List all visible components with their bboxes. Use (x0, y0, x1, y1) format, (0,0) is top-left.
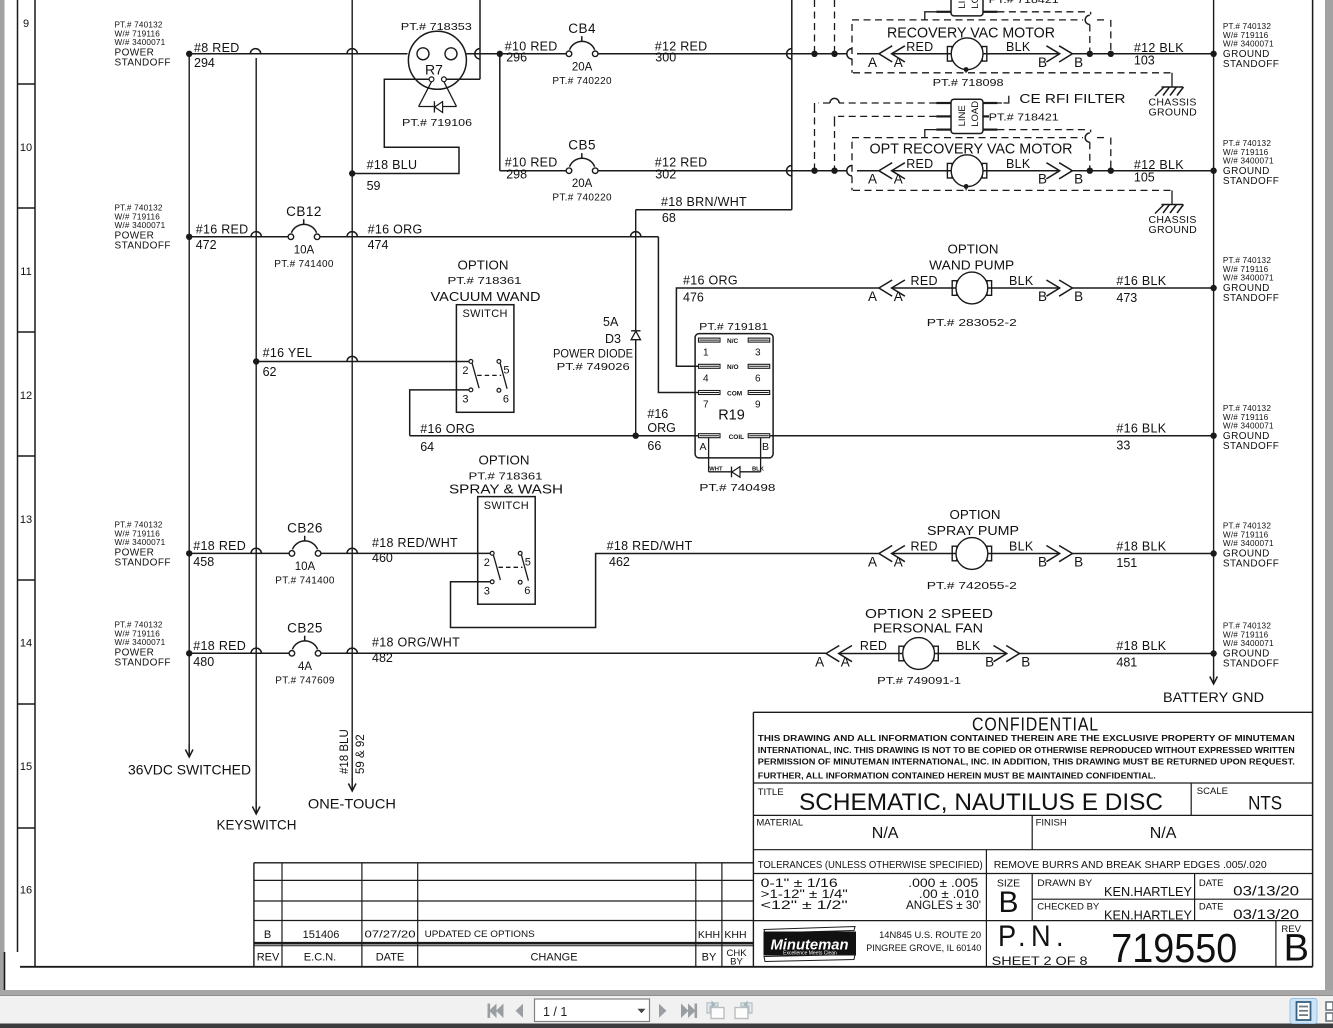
svg-text:BLK: BLK (1006, 157, 1031, 171)
wire #18 BRN/WHT 68 (636, 209, 792, 211)
connector R7 (408, 31, 466, 89)
svg-text:W/# 719116: W/# 719116 (115, 29, 161, 38)
svg-text:59 & 92: 59 & 92 (355, 734, 367, 774)
svg-text:ORG: ORG (647, 421, 675, 435)
wire #16 YEL 62 (256, 361, 469, 363)
svg-text:PT.# 740132: PT.# 740132 (1223, 404, 1271, 413)
wire #18 BLK 151 (1072, 553, 1213, 555)
svg-text:PT.# 740132: PT.# 740132 (1223, 522, 1271, 531)
svg-text:5A: 5A (603, 315, 619, 329)
wire #18 BLK 481 (1020, 653, 1214, 655)
svg-text:PT.# 740132: PT.# 740132 (115, 21, 163, 30)
svg-text:SCHEMATIC, NAUTILUS E DISC: SCHEMATIC, NAUTILUS E DISC (799, 789, 1163, 816)
motor M2 bottom pin (964, 184, 969, 189)
revision table headers (257, 948, 748, 968)
svg-text:SWITCH: SWITCH (484, 500, 529, 512)
svg-text:10: 10 (20, 142, 32, 154)
arrow one-touch (351, 778, 353, 791)
motor opt recovery vac M2 (892, 155, 1060, 187)
svg-text:CHANGE: CHANGE (530, 952, 577, 964)
svg-text:W/# 719116: W/# 719116 (115, 212, 161, 221)
svg-text:PT.# 718098: PT.# 718098 (933, 77, 1004, 89)
svg-text:CB4: CB4 (568, 21, 596, 36)
connector arrows A personal fan (826, 646, 839, 662)
svg-text:W/# 719116: W/# 719116 (115, 529, 161, 538)
wire #12 BLK 103 (1072, 53, 1213, 55)
svg-text:5: 5 (503, 364, 509, 376)
svg-text:FINISH: FINISH (1036, 818, 1067, 829)
svg-text:2: 2 (484, 557, 490, 569)
svg-text:PT.# 718421: PT.# 718421 (989, 0, 1059, 6)
svg-text:STANDOFF: STANDOFF (115, 557, 171, 568)
svg-text:LOAD: LOAD (970, 0, 981, 9)
svg-text:13: 13 (20, 514, 32, 526)
svg-text:KEN.HARTLEY: KEN.HARTLEY (1104, 884, 1192, 899)
svg-text:OPT RECOVERY VAC MOTOR: OPT RECOVERY VAC MOTOR (870, 142, 1073, 158)
svg-text:103: 103 (1134, 54, 1155, 68)
toolbar page number box (535, 999, 650, 1022)
svg-text:W/# 3400071: W/# 3400071 (1223, 639, 1274, 648)
svg-text:PT.# 742055-2: PT.# 742055-2 (927, 580, 1017, 592)
svg-text:NTS: NTS (1248, 794, 1282, 815)
svg-text:16: 16 (20, 885, 32, 897)
svg-text:A: A (868, 555, 877, 570)
svg-text:#16 ORG: #16 ORG (420, 422, 475, 436)
chassis ground 1 (1162, 86, 1184, 88)
svg-text:9: 9 (23, 18, 29, 30)
svg-text:W/# 3400071: W/# 3400071 (1223, 40, 1274, 49)
svg-text:2: 2 (462, 365, 468, 377)
svg-text:#18 RED: #18 RED (193, 639, 246, 653)
dashed wires filter2 left (815, 98, 937, 170)
svg-text:A: A (868, 172, 877, 187)
svg-text:482: 482 (372, 651, 393, 665)
motor personal fan (839, 638, 1007, 670)
svg-text:STANDOFF: STANDOFF (1223, 558, 1279, 569)
arrow 36VDC switched (188, 744, 190, 757)
svg-text:N/C: N/C (727, 338, 739, 345)
svg-text:N/O: N/O (727, 364, 739, 371)
svg-text:W/# 3400071: W/# 3400071 (1223, 422, 1274, 431)
svg-text:B: B (1074, 289, 1083, 304)
connector arrows B row2 (1046, 163, 1059, 179)
svg-text:#16 YEL: #16 YEL (263, 346, 313, 360)
svg-text:LINE: LINE (957, 105, 968, 126)
node junction row2 b (831, 168, 837, 174)
svg-text:#18 BLU: #18 BLU (339, 729, 351, 774)
svg-text:SCALE: SCALE (1197, 786, 1228, 797)
svg-text:DRAWN BY: DRAWN BY (1037, 878, 1093, 889)
svg-text:COIL: COIL (729, 434, 745, 441)
svg-text:RED: RED (911, 540, 938, 554)
relay coil suppression diode (709, 438, 765, 478)
svg-text:#18 RED/WHT: #18 RED/WHT (372, 536, 458, 550)
svg-text:PT.# 740132: PT.# 740132 (1223, 22, 1271, 31)
svg-text:CB26: CB26 (287, 520, 323, 535)
svg-text:1: 1 (703, 348, 709, 359)
svg-text:THIS DRAWING AND ALL INFORMATI: THIS DRAWING AND ALL INFORMATION CONTAIN… (758, 733, 1295, 743)
svg-text:PT.# 749026: PT.# 749026 (557, 361, 630, 373)
svg-text:59: 59 (367, 179, 381, 193)
toolbar first page button (488, 1004, 504, 1019)
svg-text:W/# 3400071: W/# 3400071 (115, 638, 166, 647)
svg-text:POWER DIODE: POWER DIODE (553, 347, 633, 361)
svg-text:DATE: DATE (1199, 878, 1224, 889)
svg-text:14: 14 (20, 638, 32, 650)
svg-text:BLK: BLK (956, 639, 981, 653)
wire one-touch rail (351, 0, 353, 778)
svg-text:REV: REV (257, 952, 280, 964)
motor recovery vac M1 (892, 38, 1060, 70)
svg-text:KEN.HARTLEY: KEN.HARTLEY (1104, 908, 1192, 923)
tolerance rows (761, 878, 981, 912)
wire ground standoff rail right (1213, 0, 1215, 671)
svg-text:A: A (841, 655, 850, 670)
svg-text:KHH: KHH (698, 929, 720, 941)
svg-text:REMOVE BURRS AND BREAK SHARP E: REMOVE BURRS AND BREAK SHARP EDGES .005/… (994, 859, 1267, 871)
svg-text:W/# 719116: W/# 719116 (115, 629, 161, 638)
svg-text:STANDOFF: STANDOFF (1223, 658, 1279, 669)
svg-text:D3: D3 (605, 332, 621, 346)
svg-text:20A: 20A (572, 178, 593, 190)
svg-text:RECOVERY VAC MOTOR: RECOVERY VAC MOTOR (887, 26, 1055, 42)
svg-text:458: 458 (193, 555, 214, 569)
svg-text:302: 302 (655, 168, 676, 182)
svg-text:11: 11 (20, 266, 31, 278)
svg-text:6: 6 (503, 393, 509, 405)
svg-text:WAND PUMP: WAND PUMP (929, 258, 1014, 273)
svg-text:#18 BLK: #18 BLK (1116, 540, 1166, 554)
svg-text:PERMISSION OF MINUTEMAN INTERN: PERMISSION OF MINUTEMAN INTERNATIONAL, I… (758, 757, 1295, 767)
wire #16 ORG 476 to wand pump (676, 288, 879, 366)
svg-text:B: B (1038, 172, 1047, 187)
svg-text:TOLERANCES (UNLESS OTHERWISE S: TOLERANCES (UNLESS OTHERWISE SPECIFIED) (758, 859, 983, 871)
wire 36VDC switched rail (188, 54, 190, 744)
wire R7 pad to #18 BLU loop (352, 79, 459, 173)
svg-text:CONFIDENTIAL: CONFIDENTIAL (972, 714, 1099, 735)
relay R19 (695, 334, 773, 458)
node junction row2 a (811, 168, 817, 174)
svg-text:PT.# 740220: PT.# 740220 (552, 76, 612, 87)
connector arrows A row2 (879, 163, 892, 179)
wire #16 ORG 64/66 (410, 435, 699, 437)
wire #16 RED 472 (189, 236, 288, 238)
circuit breaker CB25 (289, 651, 295, 657)
svg-text:W/# 719116: W/# 719116 (1223, 413, 1269, 422)
svg-text:B: B (1038, 55, 1047, 70)
svg-text:6: 6 (524, 585, 530, 597)
svg-text:CB25: CB25 (287, 620, 323, 635)
svg-text:SPRAY & WASH: SPRAY & WASH (449, 482, 563, 497)
node junction row1 b (831, 51, 837, 57)
wire keyswitch rail (255, 58, 257, 801)
svg-text:TITLE: TITLE (758, 787, 784, 798)
filter1 left pin solid L (925, 12, 936, 20)
svg-text:PT.# 741400: PT.# 741400 (275, 575, 335, 586)
svg-text:OPTION: OPTION (458, 259, 509, 273)
confidential paragraph (758, 733, 1295, 780)
connector arrows B row1 (1046, 46, 1059, 62)
svg-text:151: 151 (1116, 556, 1137, 570)
svg-text:A: A (868, 55, 877, 70)
svg-text:1 / 1: 1 / 1 (543, 1005, 567, 1019)
svg-text:PT.# 740132: PT.# 740132 (1223, 256, 1271, 265)
svg-text:296: 296 (506, 51, 527, 65)
svg-text:CB12: CB12 (286, 204, 322, 219)
svg-text:GROUND: GROUND (1149, 224, 1198, 236)
svg-text:N/A: N/A (872, 825, 899, 842)
connector arrows A row1 (879, 46, 892, 62)
svg-text:<12" ± 1/2": <12" ± 1/2" (761, 900, 848, 912)
toolbar dark bottom bar (0, 1024, 1333, 1028)
wire #10 RED 298 (500, 170, 566, 172)
svg-text:20A: 20A (572, 61, 593, 73)
wire #8 RED 294 (189, 53, 407, 55)
svg-text:B: B (762, 441, 769, 453)
svg-text:STANDOFF: STANDOFF (115, 240, 171, 251)
svg-text:A: A (815, 655, 824, 670)
svg-text:KHH: KHH (724, 929, 746, 941)
svg-text:PT.# 719106: PT.# 719106 (402, 117, 472, 129)
svg-text:PT.# 747609: PT.# 747609 (275, 675, 335, 686)
svg-text:6: 6 (755, 374, 761, 385)
svg-text:298: 298 (506, 168, 527, 182)
wire spray pin3 loop to 462 (451, 554, 879, 628)
svg-text:A: A (894, 55, 903, 70)
svg-text:STANDOFF: STANDOFF (115, 657, 171, 668)
svg-text:476: 476 (683, 291, 704, 305)
svg-text:294: 294 (194, 56, 215, 70)
svg-text:A: A (868, 289, 877, 304)
svg-text:A: A (894, 172, 903, 187)
svg-text:#16 BLK: #16 BLK (1116, 274, 1166, 288)
svg-text:W/# 3400071: W/# 3400071 (115, 38, 166, 47)
svg-text:W/# 719116: W/# 719116 (1223, 530, 1269, 539)
wire R7 right pad drop from top (479, 0, 481, 79)
svg-text:36VDC SWITCHED: 36VDC SWITCHED (128, 762, 251, 778)
svg-text:BLK: BLK (752, 467, 765, 473)
svg-text:B: B (1074, 55, 1083, 70)
svg-text:3: 3 (462, 393, 468, 405)
toolbar previous view icon (707, 1001, 724, 1019)
arrow battery ground (1213, 671, 1215, 684)
svg-text:PT.# 283052-2: PT.# 283052-2 (927, 317, 1017, 329)
wire #18 BRN/WHT riser (791, 0, 793, 210)
svg-text:SPRAY PUMP: SPRAY PUMP (927, 523, 1019, 538)
svg-text:#8 RED: #8 RED (194, 41, 240, 55)
svg-text:W/# 719116: W/# 719116 (1223, 630, 1269, 639)
svg-text:7: 7 (703, 400, 709, 411)
label #18 BLU 59 & 92 vertical (339, 729, 351, 774)
chassis ground 1 lead (1171, 73, 1173, 87)
wire #16 ORG corner to R19 pin7 (658, 237, 699, 393)
svg-text:PT.# 740132: PT.# 740132 (115, 521, 163, 530)
svg-text:A: A (894, 555, 903, 570)
svg-text:B: B (985, 655, 994, 670)
toolbar single page view button selected (1290, 999, 1317, 1024)
minuteman logo (764, 927, 857, 962)
circuit breaker CB5 (566, 168, 572, 174)
svg-text:14N845 U.S. ROUTE 20: 14N845 U.S. ROUTE 20 (879, 930, 981, 941)
svg-text:03/13/20: 03/13/20 (1233, 906, 1299, 922)
svg-text:3: 3 (755, 348, 761, 359)
svg-text:#18 RED/WHT: #18 RED/WHT (607, 539, 693, 553)
motor wand pump (892, 272, 1060, 304)
svg-text:SWITCH: SWITCH (463, 308, 508, 320)
svg-text:PT.# 719181: PT.# 719181 (699, 321, 768, 333)
diode assembly below R7 (419, 82, 457, 113)
dashed wires filter2 to motor2 right (997, 130, 1110, 171)
svg-text:E.C.N.: E.C.N. (304, 952, 336, 964)
node junction yel (253, 358, 259, 364)
svg-text:64: 64 (420, 440, 434, 454)
dashed enclosure motor2 (852, 138, 1171, 191)
svg-text:BY: BY (730, 957, 743, 968)
dashed hook filter2 top right (997, 102, 1003, 104)
revision table (254, 863, 754, 967)
wire #8 RED to CB4 (466, 53, 566, 55)
revision row B entries (264, 929, 747, 941)
svg-text:DATE: DATE (376, 952, 405, 964)
svg-text:460: 460 (372, 551, 393, 565)
svg-text:STANDOFF: STANDOFF (115, 57, 171, 68)
svg-text:UPDATED CE OPTIONS: UPDATED CE OPTIONS (425, 929, 535, 940)
connector arrows B spray pump (1046, 546, 1059, 562)
svg-text:#16 RED: #16 RED (196, 223, 249, 237)
svg-text:>1-12" ± 1/4": >1-12" ± 1/4" (761, 889, 848, 901)
toolbar background (0, 996, 1333, 1024)
svg-text:472: 472 (196, 238, 217, 252)
svg-text:#18 BRN/WHT: #18 BRN/WHT (661, 195, 747, 209)
svg-text:#16: #16 (647, 407, 668, 421)
svg-text:GROUND: GROUND (1149, 107, 1198, 119)
svg-text:W/# 719116: W/# 719116 (1223, 31, 1269, 40)
svg-text:66: 66 (647, 439, 661, 453)
svg-text:STANDOFF: STANDOFF (1223, 176, 1279, 187)
svg-text:B: B (1038, 289, 1047, 304)
dashed verticals above row1 (814, 0, 816, 54)
svg-text:#18 BLU: #18 BLU (367, 158, 418, 172)
dashed wires filter1 to motor1 right (997, 12, 1110, 54)
svg-text:OPTION: OPTION (948, 242, 999, 257)
svg-text:12: 12 (20, 390, 32, 402)
svg-text:STANDOFF: STANDOFF (1223, 293, 1279, 304)
svg-text:RED: RED (906, 157, 933, 171)
arrow keyswitch (255, 801, 257, 814)
connector arrows A wand pump (879, 280, 892, 296)
svg-text:B: B (1021, 655, 1030, 670)
filter2 left pin solid L (925, 130, 936, 138)
sheet left edge line (4, 952, 6, 990)
svg-text:#18 ORG/WHT: #18 ORG/WHT (372, 636, 460, 650)
svg-text:BATTERY GND: BATTERY GND (1163, 689, 1264, 705)
svg-text:W/# 3400071: W/# 3400071 (115, 538, 166, 547)
label 5A D3 POWER DIODE PT.# 749026 (553, 315, 633, 373)
wire #18 RED 480 (189, 652, 289, 654)
svg-text:.00 ± .010: .00 ± .010 (919, 889, 979, 901)
svg-text:PT.# 740220: PT.# 740220 (552, 193, 612, 204)
svg-text:PT.# 718353: PT.# 718353 (401, 21, 472, 33)
svg-text:MATERIAL: MATERIAL (756, 818, 803, 829)
svg-text:473: 473 (1116, 291, 1137, 305)
svg-text:105: 105 (1134, 171, 1155, 185)
connector arrows A spray pump (879, 546, 892, 562)
svg-text:4: 4 (703, 374, 709, 385)
switch vacuum wand SW1 (456, 305, 514, 413)
viewer bottom strip (0, 990, 1333, 996)
svg-text:10A: 10A (295, 561, 316, 573)
svg-text:A: A (700, 441, 707, 453)
svg-text:3: 3 (484, 585, 490, 597)
switch spray and wash SW2 (478, 497, 536, 605)
svg-text:#16 BLK: #16 BLK (1116, 422, 1166, 436)
svg-text:10A: 10A (294, 244, 315, 256)
svg-text:B: B (1038, 555, 1047, 570)
svg-text:W/# 719116: W/# 719116 (1223, 265, 1269, 274)
svg-text:N/A: N/A (1150, 825, 1177, 842)
svg-text:STANDOFF: STANDOFF (1223, 441, 1279, 452)
svg-text:PT.# 740132: PT.# 740132 (115, 204, 163, 213)
svg-text:W/# 3400071: W/# 3400071 (1223, 157, 1274, 166)
ruler zone numbers 9-16 (20, 18, 32, 897)
circuit breaker CB26 (289, 551, 295, 557)
wire #10 RED drop to CB5 (499, 54, 501, 171)
motor M1 bottom pin (964, 67, 969, 72)
circuit breaker CB12 (288, 234, 294, 240)
node junction 296 (497, 51, 503, 57)
svg-text:B: B (264, 929, 271, 941)
svg-text:B: B (998, 886, 1018, 919)
svg-text:CE RFI FILTER: CE RFI FILTER (1019, 92, 1125, 106)
svg-text:DATE: DATE (1199, 902, 1224, 913)
svg-text:4A: 4A (298, 661, 312, 673)
svg-text:BLK: BLK (1009, 540, 1034, 554)
svg-text:INTERNATIONAL, INC. THIS DRAWI: INTERNATIONAL, INC. THIS DRAWING IS NOT … (758, 745, 1295, 755)
node junction #18 BLU (349, 170, 355, 176)
circuit breaker CB4 (566, 51, 572, 57)
svg-text:B: B (1074, 172, 1083, 187)
svg-text:#16 ORG: #16 ORG (368, 223, 423, 237)
diode D3 (631, 331, 640, 340)
toolbar last page button (681, 1004, 697, 1019)
wire #12 RED 300 (598, 53, 847, 55)
svg-text:#18 RED: #18 RED (193, 539, 246, 553)
toolbar prev page button (516, 1004, 524, 1018)
wire #18 RED 458 (189, 552, 289, 554)
svg-text:PT.# 740132: PT.# 740132 (1223, 139, 1271, 148)
svg-text:PT.# 740498: PT.# 740498 (699, 482, 775, 494)
node junction D3 coil (633, 433, 639, 439)
label #16 ORG 66 (647, 407, 675, 453)
wire #12 BLK 105 (1072, 170, 1213, 172)
svg-text:RED: RED (860, 639, 887, 653)
svg-text:474: 474 (368, 238, 389, 252)
svg-text:#16 ORG: #16 ORG (683, 274, 738, 288)
toolbar next page button (659, 1004, 667, 1018)
svg-text:BLK: BLK (1009, 274, 1034, 288)
svg-text:CHECKED BY: CHECKED BY (1037, 902, 1100, 913)
svg-text:R7: R7 (425, 62, 443, 78)
dashed enclosure motor1 (852, 20, 1171, 73)
svg-text:LOAD: LOAD (970, 101, 981, 127)
title block grid (753, 712, 1312, 967)
wire wand switch pin3 to ORG 64 (410, 390, 469, 436)
wire #16 BLK 33 (770, 435, 1214, 437)
svg-text:COM: COM (727, 391, 742, 398)
filter CE RFI 2 (936, 99, 997, 133)
svg-text:PT.# 740132: PT.# 740132 (115, 621, 163, 630)
wire #18 ORG/WHT 482 (321, 652, 826, 654)
